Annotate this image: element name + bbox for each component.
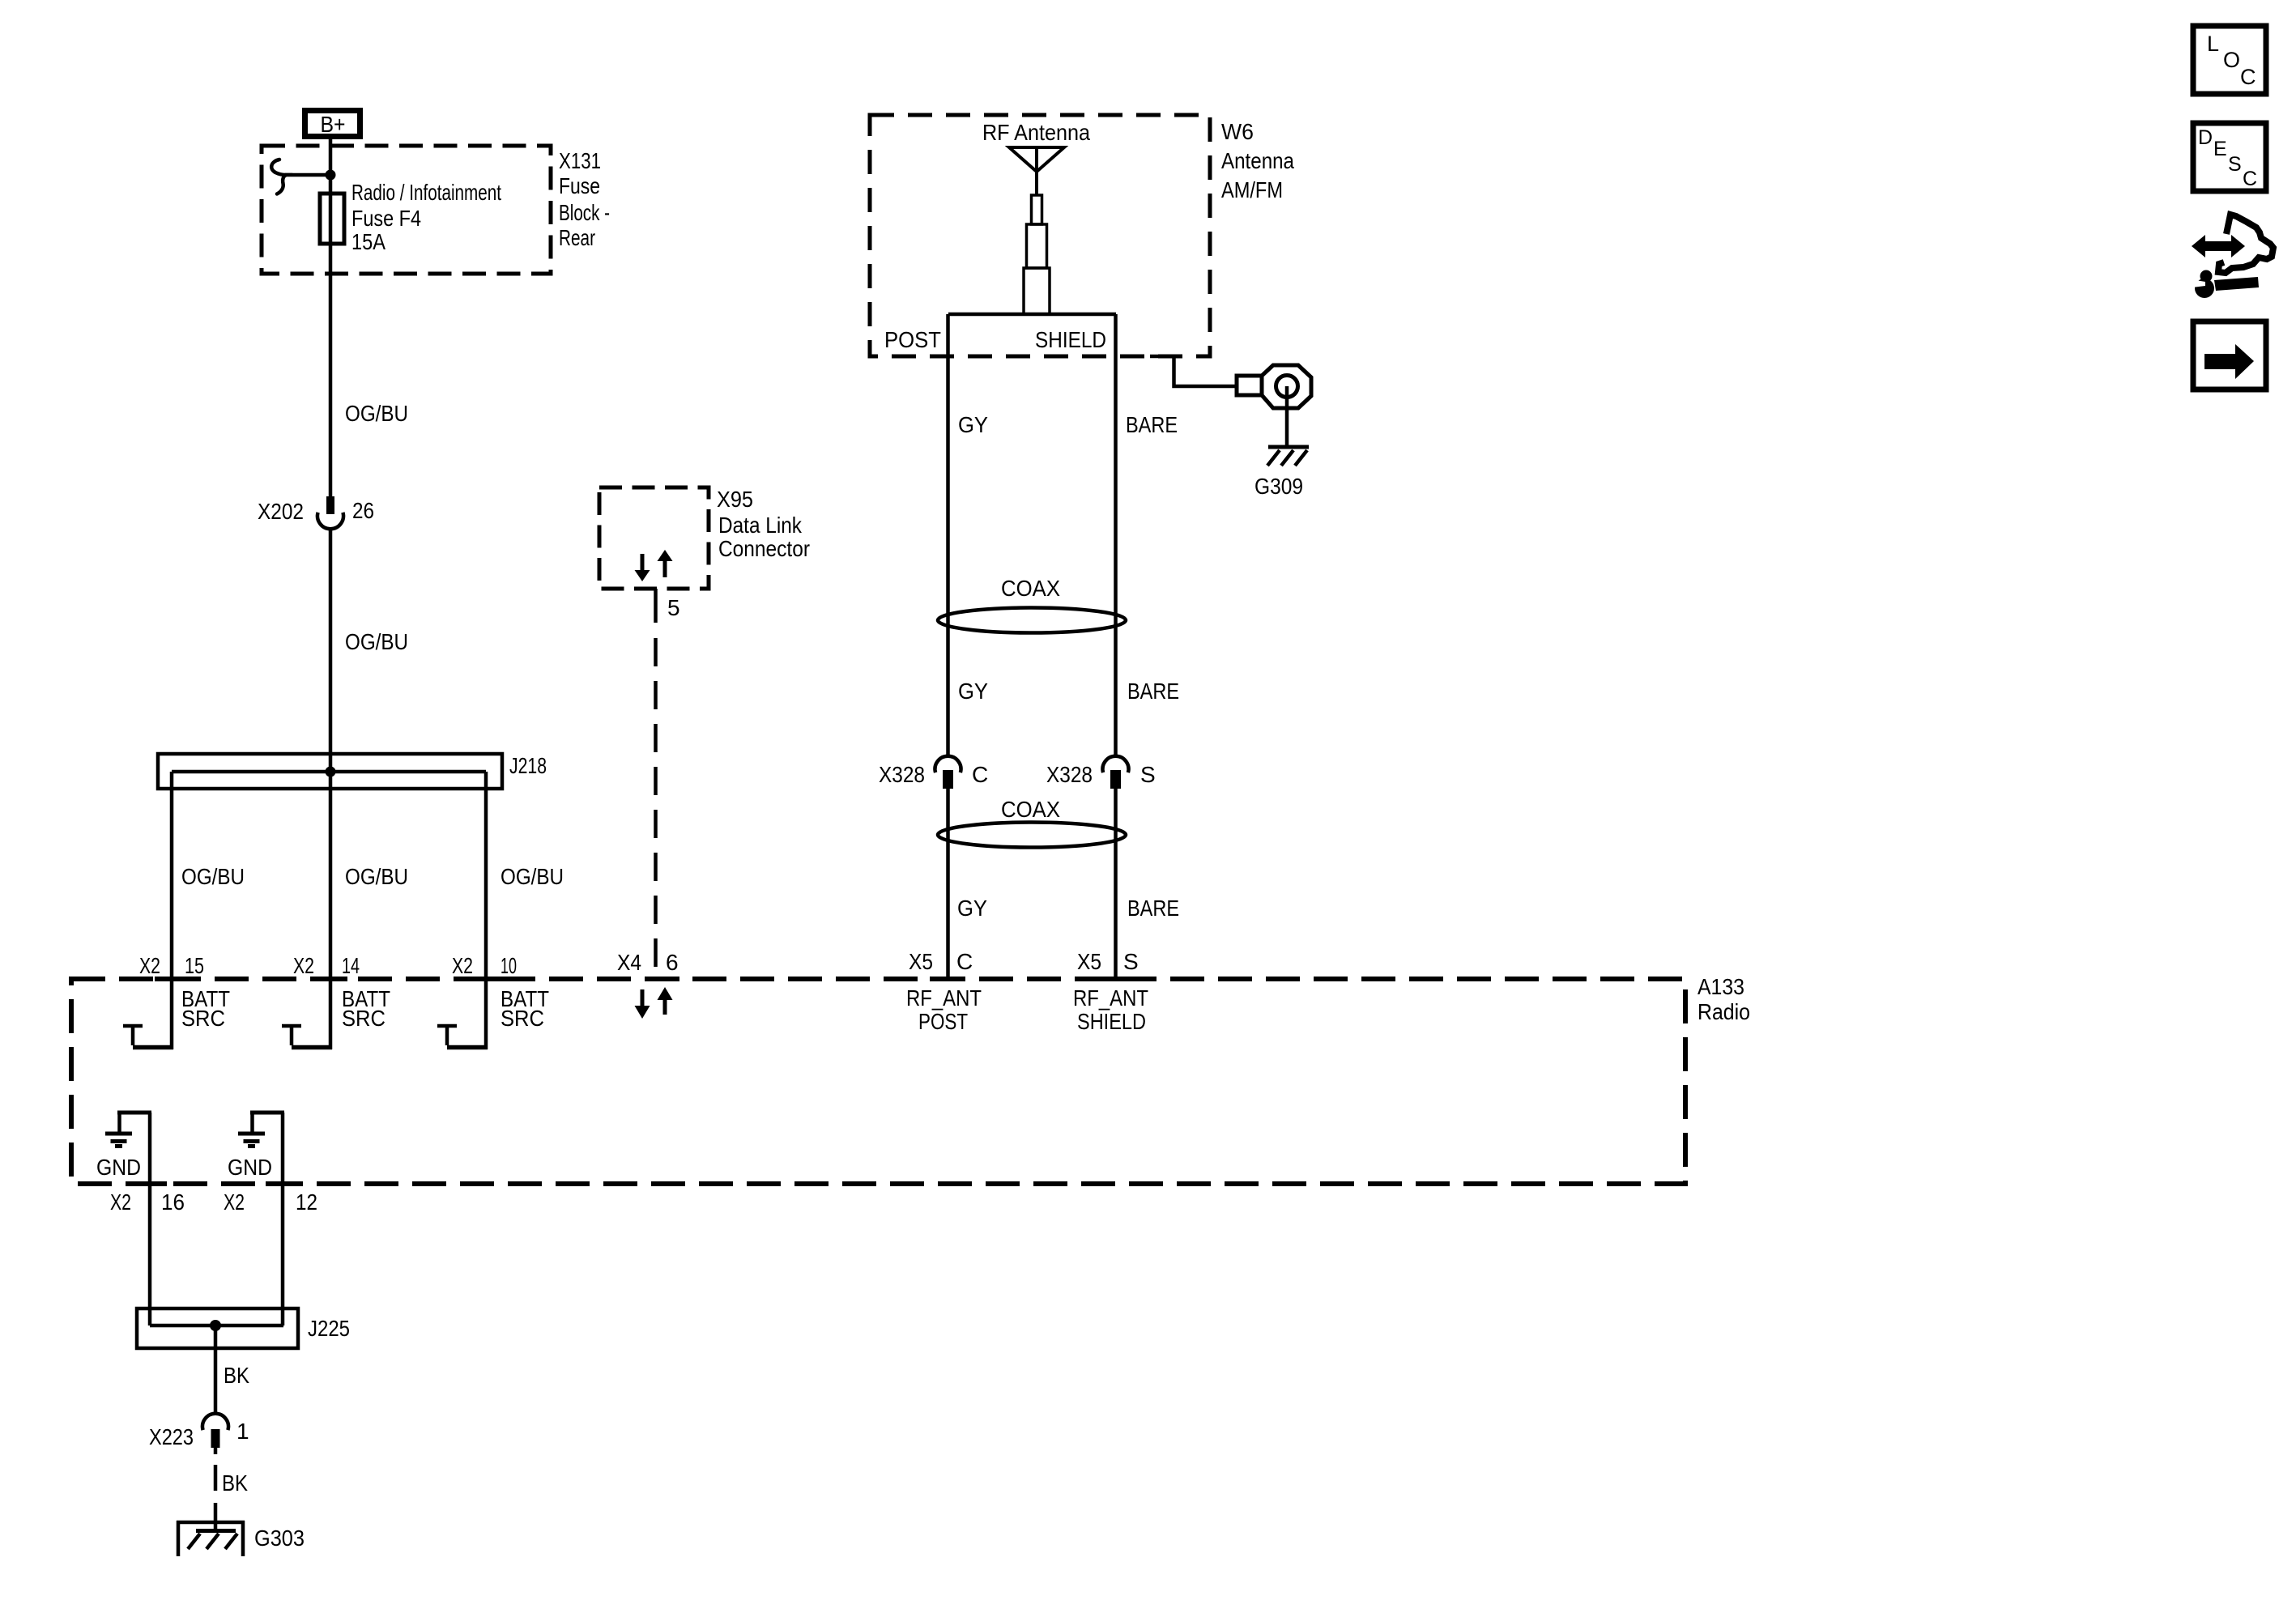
dash ticks under radio pins on A133 edge: [133, 979, 1133, 1184]
svg-text:SRC: SRC: [342, 1006, 386, 1031]
svg-text:BARE: BARE: [1127, 896, 1179, 921]
icon DESC box: [2193, 123, 2266, 191]
pin label X4 6: [617, 950, 679, 975]
svg-text:X223: X223: [149, 1424, 194, 1449]
svg-text:GY: GY: [958, 412, 988, 437]
svg-text:G309: G309: [1254, 474, 1303, 499]
svg-text:12: 12: [296, 1189, 317, 1215]
svg-text:BK: BK: [222, 1470, 248, 1496]
antenna W6 dashed box: [870, 115, 1210, 356]
pin label X2 12: [224, 1189, 317, 1215]
label X131 Fuse Block - Rear: [559, 148, 610, 250]
pin label X2 15: [139, 953, 204, 978]
svg-text:X131: X131: [559, 148, 601, 173]
dashed wire BK X223 to G303: [215, 1465, 248, 1530]
label W6 Antenna AM/FM: [1221, 119, 1294, 202]
svg-text:S: S: [1140, 762, 1156, 787]
svg-text:X2: X2: [293, 953, 314, 978]
ground pin GND (X2-16) terminal: [117, 1113, 151, 1132]
label RF Antenna: [982, 120, 1090, 145]
ground stub from antenna shield to ring terminal: [1150, 356, 1237, 386]
junction dot on J225: [210, 1320, 221, 1331]
svg-text:15A: 15A: [351, 229, 386, 254]
ground G309: [1254, 386, 1309, 499]
svg-text:W6: W6: [1221, 119, 1254, 144]
svg-text:Antenna: Antenna: [1221, 148, 1294, 173]
svg-text:10: 10: [501, 953, 517, 978]
svg-text:C: C: [972, 762, 988, 787]
wire label OG/BU (upper): [345, 401, 408, 426]
coax shield ellipse lower: [938, 797, 1126, 848]
svg-text:C: C: [2240, 65, 2256, 89]
wire GND X2-16 to J225: [148, 1113, 152, 1326]
svg-text:GND: GND: [96, 1155, 141, 1180]
svg-text:E: E: [2213, 138, 2227, 160]
svg-text:X2: X2: [452, 953, 473, 978]
pin name RF_ANT SHIELD: [1073, 985, 1148, 1034]
svg-text:X95: X95: [717, 487, 753, 512]
clip symbol inside fuse block: [271, 160, 330, 194]
wire J218 left branch (OG/BU) to X2-15: [172, 772, 245, 1049]
svg-text:SRC: SRC: [181, 1006, 225, 1031]
fuse block X131 dashed box: [262, 146, 551, 274]
ring terminal at G309: [1237, 365, 1311, 408]
svg-text:SHIELD: SHIELD: [1035, 327, 1106, 352]
svg-text:Radio / Infotainment: Radio / Infotainment: [351, 180, 501, 205]
junction dot at fuse feed: [326, 170, 336, 181]
pin name RF_ANT POST: [906, 985, 982, 1034]
svg-text:OG/BU: OG/BU: [345, 629, 408, 654]
svg-text:X4: X4: [617, 950, 641, 975]
junction dot on J218: [326, 767, 336, 777]
data link connector X95 dashed box: [599, 487, 709, 589]
svg-text:S: S: [1123, 949, 1139, 974]
arrows inside X95: [635, 550, 673, 581]
svg-text:26: 26: [352, 498, 374, 523]
svg-text:COAX: COAX: [1001, 797, 1060, 822]
svg-text:S: S: [2228, 153, 2242, 176]
svg-text:SRC: SRC: [501, 1006, 544, 1031]
svg-text:OG/BU: OG/BU: [181, 864, 245, 889]
svg-text:X5: X5: [1077, 949, 1101, 974]
svg-text:C: C: [2243, 168, 2257, 190]
svg-text:Block -: Block -: [559, 200, 610, 225]
pin label X2 10: [452, 953, 517, 978]
svg-text:5: 5: [667, 595, 680, 620]
svg-text:Connector: Connector: [718, 536, 810, 561]
splice pack J218: [158, 753, 547, 789]
wire J218 right branch (OG/BU) to X2-10: [486, 772, 564, 1049]
svg-text:POST: POST: [884, 327, 941, 352]
svg-text:A133: A133: [1698, 974, 1744, 999]
svg-text:BK: BK: [224, 1363, 249, 1388]
svg-text:X202: X202: [258, 499, 304, 524]
connector X328 pin S: [1046, 756, 1156, 789]
svg-text:SHIELD: SHIELD: [1077, 1009, 1146, 1034]
svg-text:L: L: [2207, 32, 2219, 56]
svg-text:6: 6: [666, 950, 679, 975]
svg-text:1: 1: [236, 1419, 249, 1444]
ground pin GND (X2-12) terminal: [250, 1113, 284, 1132]
svg-text:RF Antenna: RF Antenna: [982, 120, 1090, 145]
svg-text:X328: X328: [879, 762, 925, 787]
icon wiring-navigation (double arrow, outline, wrench): [2186, 215, 2273, 298]
coax shield ellipse upper: [938, 576, 1126, 633]
icon forward arrow box: [2193, 321, 2266, 389]
label X95 Data Link Connector: [717, 487, 810, 561]
terminal BATT SRC pin 14: [282, 986, 390, 1048]
icon LOC box: [2193, 26, 2266, 94]
svg-text:X2: X2: [110, 1189, 131, 1215]
radio A133 dashed box: [71, 979, 1685, 1184]
svg-text:GND: GND: [228, 1155, 272, 1180]
GND symbol left: [96, 1134, 141, 1180]
svg-text:B+: B+: [321, 112, 346, 137]
splice pack J225: [137, 1308, 350, 1348]
pin label X2 14: [293, 953, 360, 978]
svg-text:POST: POST: [918, 1009, 968, 1034]
svg-text:COAX: COAX: [1001, 576, 1060, 601]
wire J218 middle branch (OG/BU) to X2-14: [330, 772, 408, 1049]
wire BARE SHIELD upper: [1116, 314, 1180, 756]
svg-text:GY: GY: [957, 896, 987, 921]
antenna symbol: [1009, 147, 1064, 195]
pin 5 of X95: [656, 589, 680, 623]
wire from B+ down through fuse to X202 (OG/BU): [329, 139, 333, 496]
label A133 Radio: [1698, 974, 1750, 1024]
GND symbol right: [228, 1134, 272, 1180]
svg-text:BARE: BARE: [1126, 412, 1178, 437]
svg-text:Rear: Rear: [559, 225, 595, 250]
svg-text:D: D: [2198, 126, 2213, 149]
svg-text:X2: X2: [139, 953, 160, 978]
svg-text:C: C: [956, 949, 973, 974]
terminal BATT SRC pin 10: [437, 986, 549, 1048]
svg-text:Data Link: Data Link: [718, 513, 803, 538]
power terminal B+: [305, 111, 360, 138]
antenna base POST/SHIELD header: [884, 314, 1116, 352]
label Radio / Infotainment Fuse F4 15A: [351, 180, 501, 254]
arrows below X4-6 inside radio: [635, 987, 673, 1019]
connector X223 pin 1: [149, 1414, 249, 1454]
svg-text:X2: X2: [224, 1189, 245, 1215]
dashed wire X95 pin 5 to X4-6: [654, 638, 658, 977]
svg-text:14: 14: [342, 953, 360, 978]
svg-text:16: 16: [161, 1189, 185, 1215]
svg-text:Fuse F4: Fuse F4: [351, 206, 421, 231]
fuse F4 15A: [320, 194, 344, 244]
svg-text:OG/BU: OG/BU: [501, 864, 564, 889]
svg-text:AM/FM: AM/FM: [1221, 177, 1283, 202]
wire GY lower: [948, 789, 988, 977]
svg-text:GY: GY: [958, 679, 988, 704]
svg-text:OG/BU: OG/BU: [345, 401, 408, 426]
svg-text:OG/BU: OG/BU: [345, 864, 408, 889]
svg-text:RF_ANT: RF_ANT: [906, 985, 982, 1011]
svg-text:BARE: BARE: [1127, 679, 1179, 704]
svg-text:X5: X5: [909, 949, 933, 974]
wire GY POST upper: [948, 314, 989, 756]
connector X202 pin 26: [258, 496, 374, 529]
antenna mast telescoping segments: [1024, 195, 1050, 314]
wire GND X2-12 to J225: [281, 1113, 285, 1326]
terminal BATT SRC pin 15: [123, 986, 230, 1048]
pin label X2 16: [110, 1189, 185, 1215]
connector X328 pin C: [879, 756, 988, 789]
svg-text:X328: X328: [1046, 762, 1093, 787]
ground G303: [177, 1521, 305, 1556]
svg-text:O: O: [2223, 48, 2240, 72]
pin label X5 C: [909, 949, 973, 974]
svg-text:15: 15: [185, 953, 204, 978]
wire X202 to J218 (OG/BU): [330, 530, 408, 772]
svg-text:RF_ANT: RF_ANT: [1073, 985, 1148, 1011]
svg-text:J225: J225: [308, 1316, 350, 1341]
pin label X5 S: [1077, 949, 1139, 974]
wire BARE lower: [1116, 789, 1180, 977]
svg-text:J218: J218: [509, 753, 547, 778]
svg-text:G303: G303: [254, 1526, 305, 1551]
svg-text:Radio: Radio: [1698, 999, 1750, 1024]
wire BK J225 to X223: [215, 1326, 249, 1415]
svg-text:Fuse: Fuse: [559, 173, 600, 198]
